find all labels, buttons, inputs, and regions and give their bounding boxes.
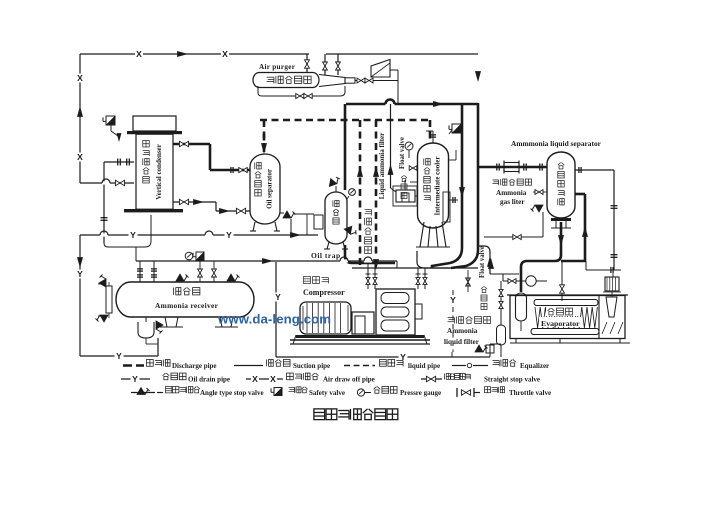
svg-text:gas liter: gas liter bbox=[500, 198, 525, 206]
svg-text:Straight stop valve: Straight stop valve bbox=[484, 376, 540, 384]
svg-text:X: X bbox=[252, 374, 258, 384]
svg-text:X: X bbox=[270, 374, 276, 384]
svg-text:Ammonia: Ammonia bbox=[447, 327, 478, 335]
svg-text:Ammmonia liquid separator: Ammmonia liquid separator bbox=[511, 139, 602, 148]
svg-text:Discharge pipe: Discharge pipe bbox=[172, 362, 217, 370]
svg-text:Y: Y bbox=[116, 351, 122, 361]
svg-text:Ammonia: Ammonia bbox=[496, 189, 527, 197]
svg-text:liquid pipe: liquid pipe bbox=[408, 362, 440, 370]
svg-text:Y: Y bbox=[450, 295, 456, 305]
svg-text:Equalizer: Equalizer bbox=[520, 362, 549, 370]
svg-text:Y: Y bbox=[130, 230, 136, 240]
svg-text:Throttle valve: Throttle valve bbox=[509, 389, 551, 397]
svg-text:Intermediate cooler: Intermediate cooler bbox=[434, 157, 442, 216]
svg-text:Oil drain pipe: Oil drain pipe bbox=[188, 376, 230, 384]
svg-text:Vertical condenser: Vertical condenser bbox=[155, 144, 163, 200]
svg-text:Y: Y bbox=[132, 374, 138, 384]
svg-text:Angle type stop valve: Angle type stop valve bbox=[200, 389, 264, 397]
svg-text:Pressre gauge: Pressre gauge bbox=[400, 389, 441, 397]
svg-text:Oil separator: Oil separator bbox=[266, 169, 274, 209]
svg-text:Y: Y bbox=[77, 269, 83, 279]
svg-text:X: X bbox=[77, 73, 83, 83]
svg-text:Ammonia receiver: Ammonia receiver bbox=[155, 301, 219, 310]
svg-text:www.da-leng.com: www.da-leng.com bbox=[217, 312, 331, 327]
svg-text:Compressor: Compressor bbox=[303, 288, 345, 297]
svg-text:X: X bbox=[222, 49, 228, 59]
svg-text:Suction pipe: Suction pipe bbox=[293, 362, 330, 370]
svg-text:Air draw off pipe: Air draw off pipe bbox=[323, 376, 375, 384]
svg-text:Oil trap: Oil trap bbox=[311, 251, 341, 260]
svg-text:X: X bbox=[136, 49, 142, 59]
svg-text:Air purger: Air purger bbox=[259, 63, 296, 71]
svg-text:Y: Y bbox=[275, 292, 281, 302]
svg-text:liquid filter: liquid filter bbox=[444, 338, 480, 346]
svg-text:Safety valve: Safety valve bbox=[309, 389, 345, 397]
svg-text:X: X bbox=[77, 152, 83, 162]
svg-text:Float valve: Float valve bbox=[399, 137, 406, 169]
svg-text:Float valve: Float valve bbox=[479, 246, 486, 278]
svg-text:Evaporator: Evaporator bbox=[541, 319, 580, 328]
svg-text:Liquid ammonia filter: Liquid ammonia filter bbox=[378, 133, 386, 200]
svg-text:Y: Y bbox=[226, 230, 232, 240]
